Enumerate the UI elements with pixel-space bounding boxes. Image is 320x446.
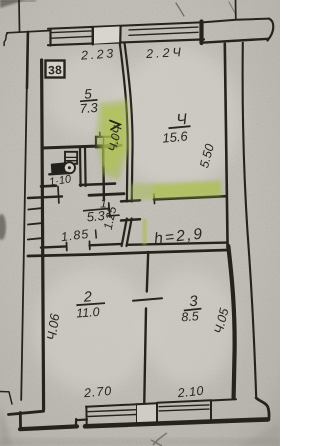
bottom-left corner shadow: [0, 404, 12, 446]
left edge smudge: [0, 214, 6, 240]
hatch mark top 1: [176, 3, 184, 16]
svg-text:2.70: 2.70: [82, 384, 112, 401]
hall fraction bar: [83, 208, 110, 210]
wall: top band right end curve: [268, 19, 274, 41]
glazing: [88, 410, 136, 412]
bottom edge darkening: [0, 438, 280, 446]
wall: toilet right double: [79, 147, 82, 186]
green dash left of h=2,9: [142, 219, 147, 245]
wall: room4 right (A): [225, 44, 228, 248]
wall: rooms 2/3 divider: [147, 252, 148, 292]
door jamb dash lower (hall door): [121, 219, 140, 220]
arrow mark near wall 5/4: [110, 121, 120, 130]
door jamb dash upper (hall door): [121, 200, 140, 201]
window W2 right jamb (thick pier): [199, 22, 203, 44]
toilet symbol: bowl: [64, 162, 75, 173]
wall: outer right (B): [243, 43, 257, 398]
wall: room3 right: [228, 246, 234, 398]
toilet symbol: dark mass: [51, 162, 66, 173]
svg-text:2.23: 2.23: [80, 46, 117, 62]
paper edge mark bottom-left: [0, 392, 12, 405]
svg-text:2.2Ч: 2.2Ч: [145, 45, 184, 61]
pencil scribble bottom: [151, 433, 167, 446]
outer right bottom curve: [256, 398, 269, 420]
stair stub 3: [28, 238, 42, 239]
door leaf toilet: [57, 187, 60, 204]
window W1 left jamb: [49, 29, 51, 46]
bottom-left step walls: [9, 411, 44, 414]
wall: top band bottom line (window part): [48, 39, 204, 45]
wall: neighbor top-left vertical: [18, 0, 21, 32]
hatch mark top 2: [229, 2, 235, 13]
svg-text:38: 38: [48, 63, 62, 77]
svg-text:8.5: 8.5: [181, 309, 199, 324]
jamb: [210, 400, 212, 420]
wall: rooms 5/4 double partition (left line): [120, 44, 128, 202]
room5 fraction bar: [80, 100, 98, 101]
wall: room4 bottom: [154, 196, 226, 199]
svg-text:7.3: 7.3: [79, 100, 99, 116]
wall: hall bottom lower line: [28, 250, 228, 256]
toilet symbol: base line: [49, 173, 68, 174]
room2 fraction bar: [76, 303, 105, 305]
pier right edge: [119, 26, 122, 43]
wall: outer left thin line: [21, 32, 28, 401]
wall: apartment left wall: [42, 60, 44, 410]
glazing: [159, 405, 209, 407]
door dash rooms 2/3: [133, 298, 162, 300]
svg-text:15.6: 15.6: [162, 128, 189, 145]
door leaf marks hall: [109, 203, 110, 217]
paper edge squiggle top-left: [4, 33, 8, 46]
toilet symbol: tank: [65, 152, 77, 164]
room4 fraction bar: [169, 126, 191, 128]
room3 fraction bar: [184, 309, 202, 311]
wall: hall bottom upper line: [41, 246, 66, 247]
right pier top line: [211, 399, 236, 400]
pier between windows (shaded): [94, 26, 121, 43]
door ticks hall/room2: [66, 243, 68, 251]
window bottom room2: top line: [86, 404, 137, 406]
vent box: [96, 137, 117, 148]
svg-text:11.0: 11.0: [76, 305, 100, 321]
window W1 glazing lines: [52, 31, 91, 33]
wall: toilet bottom lower line: [28, 196, 62, 198]
bottom-right corner shadow: [240, 422, 280, 446]
green streak horizontal (room4 bottom wall): [130, 180, 222, 200]
wall: toilet top: [42, 145, 121, 148]
top-left torn dark corner: [0, 0, 25, 8]
apartment number box: [46, 61, 65, 78]
wall: rooms 5/4 double partition (right line): [125, 44, 133, 202]
stair stub 1: [28, 208, 41, 209]
pier between bottom windows: [137, 403, 157, 424]
wall: top band top line: [48, 19, 269, 29]
green streak vertical (wall 5/4): [96, 99, 222, 245]
jambs: [85, 407, 87, 426]
wall: shaft stub: [102, 147, 105, 200]
wall: bottom thick outer: [85, 419, 268, 426]
window W1 right jamb: [92, 28, 95, 45]
wall: toilet bottom upper line: [41, 184, 56, 187]
stair stub 2: [28, 223, 41, 224]
window W2 glazing lines: [129, 27, 198, 30]
svg-text:2.10: 2.10: [176, 384, 205, 401]
wall: T-head bottom line: [204, 39, 268, 43]
window bottom room3: top line: [157, 400, 211, 402]
interior light washes: [116, 46, 240, 190]
neighbor wall tick top: [235, 0, 237, 20]
wall: top-left horizontal to band: [7, 31, 49, 33]
